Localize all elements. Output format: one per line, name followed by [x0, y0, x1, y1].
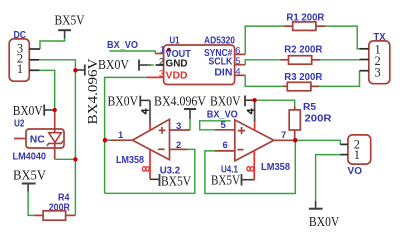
- junction dot BX0V flag at zener top: [53, 108, 57, 112]
- wire R2 to TX pin 2: [320, 59, 360, 61]
- svg-text:BX5V: BX5V: [161, 175, 191, 190]
- wire DC pin3 to BX5V flag: [40, 38, 65, 49]
- svg-text:3: 3: [375, 66, 381, 80]
- shunt reference U2 LM4040: [13, 119, 65, 163]
- svg-text:R5: R5: [303, 102, 316, 113]
- node BX4.096V flag (rotated label): [75, 59, 101, 125]
- wire VO pin 1 to BX0V: [316, 155, 341, 201]
- resistor R1: [284, 12, 325, 30]
- svg-text:BX5V: BX5V: [13, 169, 46, 184]
- resistor R4: [34, 193, 76, 221]
- svg-text:R2 200R: R2 200R: [284, 45, 323, 56]
- pin 8 of U3 (power) with flag BX5V: [142, 150, 191, 190]
- power flag BX5V bottom-left: [13, 169, 46, 192]
- svg-text:6: 6: [223, 140, 228, 151]
- power flag BX0V at U3 pin 4: [108, 95, 151, 110]
- supply flag BX4.096V at U3 pin 3: [154, 95, 206, 131]
- connector VO: [340, 135, 370, 177]
- pin 7 stub U4 (output): [274, 130, 296, 141]
- svg-text:BX0V: BX0V: [108, 95, 139, 110]
- svg-text:BX_VO: BX_VO: [207, 110, 238, 121]
- label BX_VO net at U1 pin 1: [107, 40, 155, 54]
- svg-text:1: 1: [354, 148, 360, 162]
- op-amp U3.2 LM358: [133, 119, 170, 159]
- svg-text:U2: U2: [14, 119, 25, 130]
- svg-text:LM358: LM358: [261, 162, 290, 173]
- svg-text:BX0V: BX0V: [98, 58, 129, 73]
- junction dot BX0V / R5 top / U4 pin 4: [252, 98, 256, 102]
- resistor R2: [281, 45, 324, 64]
- pin 2 stub U3 (- input): [170, 140, 188, 151]
- op-amp U4.1 LM358: [235, 120, 274, 161]
- svg-text:BX0V: BX0V: [13, 104, 43, 119]
- svg-text:BX_VO: BX_VO: [107, 40, 138, 51]
- svg-text:BX5V: BX5V: [55, 14, 85, 29]
- connector DC: [9, 30, 40, 81]
- svg-text:NC: NC: [30, 135, 45, 146]
- pin 3 stub U3 (+ input): [170, 121, 191, 132]
- connector TX: [360, 32, 390, 84]
- IC U1 AD5320: [147, 36, 245, 85]
- wire BX5V to R4 left: [28, 192, 34, 216]
- wire U1 pin4 to R3: [245, 75, 283, 86]
- svg-text:GND: GND: [166, 59, 188, 70]
- wire BX0V to R5 top: [257, 100, 295, 106]
- junction dot buffer output / U1 VDD: [103, 138, 108, 143]
- svg-text:1: 1: [17, 62, 23, 76]
- svg-text:SCLK: SCLK: [208, 57, 233, 68]
- pin 4 of U4 (power): [247, 100, 255, 130]
- wire R1 to TX pin 1: [325, 26, 360, 49]
- wire U3 feedback bottom: [105, 149, 195, 193]
- pin 6 stub U4 (- input): [215, 140, 235, 151]
- pin 5 stub U4 (+ input): [215, 120, 235, 131]
- power flag BX0V left: [13, 104, 55, 119]
- pin 8 of U4 (power) with flag BX5V: [211, 150, 254, 188]
- junction dot BX4.096V flag at DC pin2 net: [73, 68, 77, 72]
- svg-text:BX0V: BX0V: [309, 215, 339, 230]
- junction dot zener bottom / R4: [73, 157, 77, 161]
- wire zener bottom to BX4.096V net: [55, 158, 76, 160]
- wire U1 pin5 to R2: [245, 60, 280, 65]
- svg-text:U3.2: U3.2: [160, 166, 181, 177]
- wire output node to op-amp pin 1: [105, 139, 111, 141]
- pin 1 stub U3 (output): [110, 130, 132, 141]
- svg-text:VO: VO: [348, 166, 363, 177]
- svg-text:U4.1: U4.1: [221, 165, 238, 176]
- ground flag BX0V bottom right: [309, 201, 339, 230]
- wire R3 to TX pin 3: [319, 71, 360, 87]
- power flag BX0V at U4 pin 4: [210, 95, 255, 110]
- svg-text:BX5V: BX5V: [211, 174, 240, 189]
- svg-text:1: 1: [118, 130, 124, 141]
- svg-text:LM358: LM358: [116, 155, 144, 166]
- wire U4 feedback loop: [205, 140, 295, 193]
- svg-text:DIN: DIN: [214, 67, 232, 78]
- power flag BX0V at U1 GND: [98, 58, 154, 73]
- junction dot U4 output / R5: [293, 138, 298, 143]
- svg-text:LM4040: LM4040: [13, 152, 47, 163]
- zener diode symbol of U2: [47, 110, 63, 159]
- svg-text:VDD: VDD: [166, 71, 188, 82]
- resistor R3: [283, 72, 323, 91]
- power flag BX5V top-left: [55, 14, 85, 39]
- pin 4 of U3 (power): [141, 100, 150, 130]
- wire U4 output to VO pin 2: [298, 140, 341, 144]
- label BX_VO net at U4 pin 5: [200, 110, 238, 130]
- resistor R5: [289, 102, 332, 140]
- wire DC pin2 net (BX4.096V) down to zener bottom and R4: [39, 60, 75, 216]
- wire DC pin1 to zener top (BX0V net): [40, 70, 55, 110]
- svg-text:BX4.096V: BX4.096V: [154, 95, 206, 110]
- wire U1 pin6 up to R1: [245, 26, 284, 54]
- svg-text:200R: 200R: [305, 114, 333, 125]
- wire U1 VDD to buffer output node: [105, 77, 147, 193]
- svg-text:BX0V: BX0V: [210, 95, 241, 110]
- svg-text:7: 7: [281, 130, 286, 141]
